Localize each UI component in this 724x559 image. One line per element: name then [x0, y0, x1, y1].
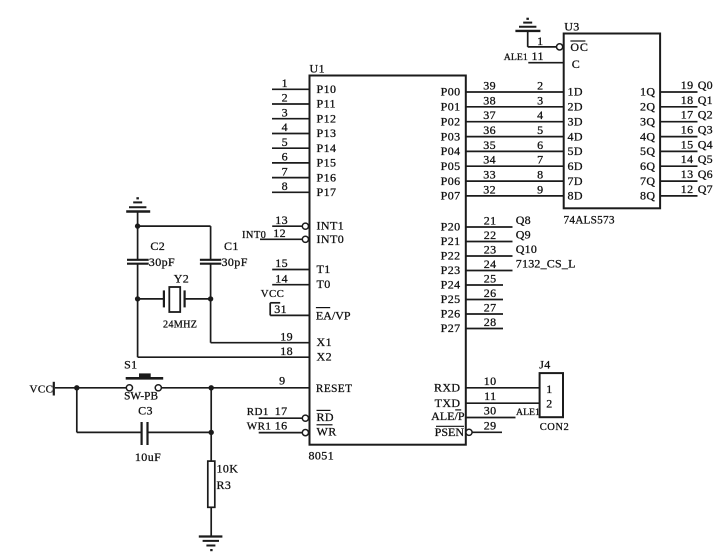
svg-text:30: 30	[484, 404, 497, 418]
svg-text:P05: P05	[441, 159, 461, 173]
svg-text:2D: 2D	[568, 100, 583, 114]
svg-text:C: C	[572, 57, 580, 71]
svg-text:OC: OC	[570, 40, 588, 54]
U1 pin 11 TXD wire to J4 pin 2	[435, 389, 540, 410]
svg-text:18: 18	[280, 344, 293, 358]
power VCC terminal	[30, 382, 54, 396]
svg-text:VCC: VCC	[261, 288, 284, 300]
svg-text:4: 4	[537, 108, 543, 122]
svg-text:P26: P26	[441, 307, 461, 321]
svg-text:16: 16	[681, 123, 694, 137]
wire U1 pin 38 P01 to U3 pin 3 2D	[441, 93, 583, 113]
svg-text:P02: P02	[441, 114, 461, 128]
svg-text:P21: P21	[441, 234, 461, 248]
svg-text:33: 33	[483, 168, 496, 182]
svg-text:Q5: Q5	[698, 152, 713, 166]
svg-text:Q8: Q8	[516, 213, 531, 227]
svg-text:14: 14	[275, 271, 288, 285]
svg-text:13: 13	[681, 167, 694, 181]
U1 pin 28 P27 wire	[441, 315, 503, 335]
svg-text:P17: P17	[317, 185, 337, 199]
svg-text:5Q: 5Q	[640, 144, 655, 158]
svg-text:18: 18	[681, 93, 694, 107]
svg-text:7132_CS_L: 7132_CS_L	[516, 257, 576, 271]
svg-text:9: 9	[537, 182, 543, 196]
resistor R3 10K	[208, 461, 239, 507]
svg-text:6: 6	[537, 138, 543, 152]
junction C3 reset net	[209, 430, 214, 435]
svg-text:16: 16	[275, 418, 288, 432]
svg-text:P00: P00	[441, 85, 461, 99]
wire U1 pin 32 P07 to U3 pin 9 8D	[441, 182, 583, 202]
svg-text:EA/VP: EA/VP	[316, 309, 351, 323]
svg-text:Q3: Q3	[698, 123, 713, 137]
node INT0 / U1 pin 12 wire	[242, 226, 344, 246]
svg-text:8D: 8D	[568, 189, 583, 203]
switch S1 SW-PB	[124, 358, 163, 403]
svg-text:32: 32	[483, 182, 496, 196]
svg-text:Q1: Q1	[698, 93, 713, 107]
svg-text:17: 17	[681, 108, 694, 122]
U1 pin 2 P11 wire	[272, 91, 336, 111]
svg-text:P24: P24	[441, 278, 461, 292]
U1 pin 10 RXD wire to J4 pin 1	[434, 374, 540, 395]
svg-text:35: 35	[483, 138, 496, 152]
svg-text:Q7: Q7	[698, 182, 713, 196]
U1 pin 13 INT1 wire	[272, 213, 344, 233]
svg-text:31: 31	[274, 302, 287, 316]
svg-text:C3: C3	[138, 404, 153, 418]
svg-text:7: 7	[537, 153, 543, 167]
svg-text:34: 34	[483, 153, 496, 167]
connector J4 CON2 body	[539, 358, 563, 418]
svg-text:P20: P20	[441, 220, 461, 234]
svg-text:5: 5	[282, 135, 288, 149]
svg-text:25: 25	[484, 272, 497, 286]
svg-text:SW-PB: SW-PB	[124, 391, 158, 403]
svg-text:24: 24	[484, 257, 497, 271]
svg-text:RESET: RESET	[316, 383, 353, 395]
svg-text:8Q: 8Q	[640, 189, 655, 203]
svg-text:6D: 6D	[568, 159, 583, 173]
svg-text:8: 8	[282, 179, 288, 193]
wire to C1 top	[210, 226, 212, 260]
node RD1 / U1 pin 17 RD wire	[247, 404, 334, 424]
U3 pin 15 5Q wire, net Q4	[640, 137, 713, 158]
U1 pin 19 X1 wire	[211, 329, 332, 349]
svg-text:21: 21	[484, 214, 497, 228]
svg-text:Q9: Q9	[516, 228, 531, 242]
svg-text:3Q: 3Q	[640, 114, 655, 128]
svg-text:10uF: 10uF	[135, 450, 161, 464]
svg-text:P04: P04	[441, 144, 461, 158]
svg-text:P25: P25	[441, 292, 461, 306]
svg-text:P23: P23	[441, 263, 461, 277]
svg-text:10: 10	[484, 374, 497, 388]
U3 pin 12 8Q wire, net Q7	[640, 182, 713, 203]
svg-text:WR: WR	[317, 424, 337, 438]
svg-text:INT1: INT1	[317, 219, 345, 233]
svg-text:T0: T0	[317, 277, 331, 291]
label 8051	[309, 449, 335, 463]
capacitor C1 30pF	[200, 239, 248, 269]
svg-text:U3: U3	[564, 20, 579, 34]
U3 pin 19 1Q wire, net Q0	[640, 78, 713, 99]
svg-text:J4: J4	[539, 358, 550, 372]
U1 pin 8 P17 wire	[272, 179, 336, 199]
wire reset net down to R3	[210, 388, 212, 461]
wire U1 pin 35 P04 to U3 pin 6 5D	[441, 138, 583, 158]
svg-text:R3: R3	[217, 478, 232, 492]
wire U1 pin 39 P00 to U3 pin 2 1D	[441, 79, 583, 99]
wire C3 right plate to reset net	[148, 431, 211, 433]
U1 pin 9 RESET wire	[161, 373, 352, 395]
svg-text:23: 23	[484, 243, 497, 257]
svg-text:4: 4	[282, 120, 288, 134]
svg-text:T1: T1	[317, 262, 331, 276]
svg-text:P10: P10	[317, 82, 337, 96]
crystal Y2 24MHZ	[138, 271, 211, 330]
junction crystal right	[208, 296, 213, 301]
svg-text:13: 13	[275, 213, 288, 227]
svg-text:8051: 8051	[309, 449, 335, 463]
svg-text:29: 29	[484, 419, 497, 433]
svg-text:15: 15	[681, 137, 694, 151]
svg-text:P01: P01	[441, 100, 461, 114]
svg-text:30pF: 30pF	[149, 255, 175, 269]
label CON2	[540, 422, 569, 433]
U1 pin 3 P12 wire	[272, 105, 336, 125]
U1 pin 18 X2 wire	[138, 344, 332, 364]
U1 pin 7 P16 wire	[272, 164, 336, 184]
svg-text:74ALS573: 74ALS573	[564, 214, 615, 226]
svg-text:Q6: Q6	[698, 167, 713, 181]
svg-text:5D: 5D	[568, 144, 583, 158]
net label 7132_CS_L	[516, 257, 576, 271]
net label Q8	[516, 213, 531, 227]
svg-text:ALE/P: ALE/P	[431, 409, 465, 423]
svg-text:11: 11	[532, 49, 544, 63]
svg-text:Y2: Y2	[174, 271, 189, 285]
svg-text:12: 12	[273, 226, 286, 240]
U1 pin 6 P15 wire	[272, 150, 336, 170]
svg-text:36: 36	[483, 123, 496, 137]
wire VCC to switch	[55, 387, 126, 389]
svg-text:C2: C2	[150, 239, 165, 253]
U1 pin 23 P22 wire	[441, 243, 513, 263]
svg-text:ALE1: ALE1	[516, 407, 540, 418]
svg-text:39: 39	[483, 79, 496, 93]
svg-text:8: 8	[537, 168, 543, 182]
svg-text:P07: P07	[441, 189, 461, 203]
IC U3 74ALS573 body	[564, 20, 660, 209]
wire VCC branch down to C3	[76, 388, 78, 433]
svg-text:12: 12	[681, 182, 694, 196]
svg-text:11: 11	[484, 389, 496, 403]
ground at U3 OC	[515, 19, 540, 31]
U1 pin 31 EA/VP wire	[270, 302, 351, 323]
U1 pin 4 P13 wire	[272, 120, 336, 140]
svg-text:1: 1	[282, 76, 288, 90]
junction ground net	[135, 223, 140, 228]
svg-text:P15: P15	[317, 156, 337, 170]
svg-text:P14: P14	[317, 141, 337, 155]
svg-text:P22: P22	[441, 249, 461, 263]
svg-text:RD: RD	[317, 410, 334, 424]
svg-text:1: 1	[537, 34, 543, 48]
svg-text:P06: P06	[441, 174, 461, 188]
wire U1 pin 36 P03 to U3 pin 5 4D	[441, 123, 583, 143]
U1 pin 29 PSEN wire	[435, 419, 502, 440]
svg-text:P12: P12	[317, 111, 337, 125]
wire U1 pin 37 P02 to U3 pin 4 3D	[441, 108, 583, 128]
U3 pin 16 4Q wire, net Q3	[640, 123, 713, 144]
svg-text:7Q: 7Q	[640, 174, 655, 188]
svg-text:6Q: 6Q	[640, 159, 655, 173]
svg-text:U1: U1	[310, 62, 325, 76]
U1 pin 21 P20 wire	[441, 214, 513, 234]
capacitor C3 10uF	[135, 404, 161, 465]
svg-text:Q4: Q4	[698, 137, 713, 151]
junction crystal left	[135, 296, 140, 301]
svg-text:5: 5	[537, 123, 543, 137]
net label Q10	[516, 242, 537, 256]
U3 pin 13 7Q wire, net Q6	[640, 167, 713, 188]
wire C2 bottom to X2 branch	[137, 264, 139, 358]
svg-text:19: 19	[280, 329, 293, 343]
svg-text:1: 1	[546, 382, 552, 396]
svg-text:38: 38	[483, 93, 496, 107]
U3 pin 1 OC wire	[528, 31, 589, 54]
U1 pin 26 P25 wire	[441, 286, 503, 306]
svg-text:14: 14	[681, 152, 694, 166]
svg-text:2Q: 2Q	[640, 100, 655, 114]
svg-text:4D: 4D	[568, 129, 583, 143]
svg-text:3: 3	[282, 105, 288, 119]
svg-text:28: 28	[484, 315, 497, 329]
svg-text:22: 22	[484, 228, 497, 242]
svg-text:17: 17	[275, 404, 288, 418]
svg-text:6: 6	[282, 150, 288, 164]
svg-text:19: 19	[681, 78, 694, 92]
svg-text:CON2: CON2	[540, 422, 569, 433]
node WR1 / U1 pin 16 WR wire	[247, 418, 337, 438]
svg-text:X2: X2	[317, 350, 332, 364]
junction reset net	[209, 385, 214, 390]
svg-text:2: 2	[537, 79, 543, 93]
svg-text:37: 37	[483, 108, 496, 122]
wire VCC to pin 31	[270, 303, 280, 316]
svg-text:15: 15	[275, 256, 288, 270]
U3 pin 18 2Q wire, net Q1	[640, 93, 713, 114]
svg-text:9: 9	[279, 373, 285, 387]
svg-text:P16: P16	[317, 170, 337, 184]
svg-text:ALE1: ALE1	[504, 52, 528, 63]
wire ground bus top	[138, 225, 211, 227]
wire R3 to ground	[210, 507, 212, 536]
IC U1 8051 body	[310, 62, 466, 445]
ground below R3	[199, 537, 223, 551]
svg-text:Q2: Q2	[698, 108, 713, 122]
svg-text:VCC: VCC	[30, 384, 54, 396]
svg-text:3: 3	[537, 93, 543, 107]
svg-text:7D: 7D	[568, 174, 583, 188]
svg-text:P03: P03	[441, 129, 461, 143]
net label Q9	[516, 228, 531, 242]
U3 pin 14 6Q wire, net Q5	[640, 152, 713, 173]
U1 pin 22 P21 wire	[441, 228, 513, 248]
label 74ALS573	[564, 214, 615, 226]
wire U1 pin 34 P05 to U3 pin 7 6D	[441, 153, 583, 173]
junction VCC branch	[74, 385, 79, 390]
svg-text:1D: 1D	[568, 85, 583, 99]
U1 pin 27 P26 wire	[441, 301, 503, 321]
svg-text:Q0: Q0	[698, 78, 713, 92]
U1 pin 24 P23 wire	[441, 257, 513, 277]
svg-text:RD1: RD1	[247, 406, 269, 418]
svg-text:1Q: 1Q	[640, 85, 655, 99]
svg-text:C1: C1	[224, 239, 239, 253]
svg-text:26: 26	[484, 286, 497, 300]
svg-text:P11: P11	[317, 97, 336, 111]
svg-text:7: 7	[282, 164, 288, 178]
svg-text:WR1: WR1	[247, 420, 271, 432]
U1 pin 14 T0 wire	[272, 271, 330, 291]
svg-text:PSEN: PSEN	[435, 425, 465, 439]
U1 pin 25 P24 wire	[441, 272, 503, 292]
svg-text:INT0: INT0	[242, 230, 266, 241]
svg-text:P13: P13	[317, 126, 337, 140]
svg-text:24MHZ: 24MHZ	[163, 320, 197, 331]
svg-text:10K: 10K	[217, 462, 239, 476]
U1 pin 30 ALE/P wire, net ALE1	[431, 404, 540, 424]
svg-text:P27: P27	[441, 321, 461, 335]
ground above C2	[126, 198, 150, 226]
svg-text:27: 27	[484, 301, 497, 315]
U3 pin 17 3Q wire, net Q2	[640, 108, 713, 129]
wire to C2 top	[137, 226, 139, 260]
wire to C3 left plate	[77, 431, 141, 433]
U1 pin 1 P10 wire	[272, 76, 336, 96]
svg-text:INT0: INT0	[317, 232, 345, 246]
svg-text:30pF: 30pF	[222, 255, 248, 269]
wire U1 pin 33 P06 to U3 pin 8 7D	[441, 168, 583, 188]
svg-text:X1: X1	[317, 335, 332, 349]
svg-text:Q10: Q10	[516, 242, 537, 256]
U1 pin 15 T1 wire	[272, 256, 330, 276]
power VCC at EA/VP	[261, 288, 284, 300]
node ALE1 / U3 pin 11 C wire	[504, 49, 580, 71]
svg-text:S1: S1	[124, 358, 137, 372]
wire C1 bottom to X1 branch	[210, 264, 212, 343]
svg-text:TXD: TXD	[435, 396, 461, 410]
svg-text:2: 2	[282, 91, 288, 105]
svg-text:RXD: RXD	[434, 381, 461, 395]
svg-text:2: 2	[546, 397, 552, 411]
capacitor C2 30pF	[127, 239, 175, 269]
svg-text:3D: 3D	[568, 114, 583, 128]
U1 pin 5 P14 wire	[272, 135, 336, 155]
svg-text:4Q: 4Q	[640, 129, 655, 143]
